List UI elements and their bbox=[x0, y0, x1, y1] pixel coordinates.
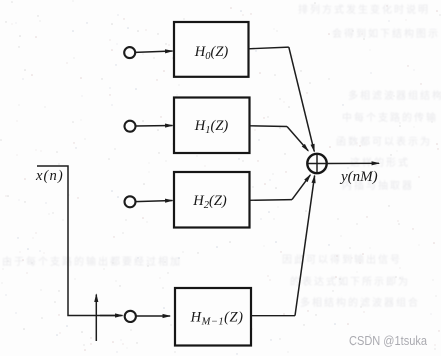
summing junction bbox=[307, 154, 326, 173]
svg-text:中每个支路的传输: 中每个支路的传输 bbox=[342, 111, 438, 124]
svg-text:CSDN @1tsuka: CSDN @1tsuka bbox=[349, 334, 427, 348]
svg-text:由于每个支路的输出都要经过相加: 由于每个支路的输出都要经过相加 bbox=[2, 255, 182, 268]
svg-text:会得到如下结构图示: 会得到如下结构图示 bbox=[332, 27, 440, 40]
sampler circle S2 bbox=[125, 121, 136, 132]
commutator up arrow bbox=[95, 295, 97, 342]
filter block H0 bbox=[174, 22, 249, 77]
svg-text:x(n): x(n) bbox=[35, 168, 64, 184]
sampler circle S1 bbox=[124, 47, 135, 58]
svg-text:多相滤波器组结构: 多相滤波器组结构 bbox=[348, 89, 441, 102]
svg-text:y(nM): y(nM) bbox=[339, 169, 378, 185]
sampler circle S4 bbox=[125, 311, 136, 322]
wire H2 output to summer bbox=[250, 199, 293, 202]
svg-text:排列方式发生变化时说明: 排列方式发生变化时说明 bbox=[298, 3, 430, 16]
svg-text:这样的形式: 这样的形式 bbox=[350, 156, 410, 169]
wire/arrow S1 to H0 bbox=[135, 51, 172, 52]
svg-text:因此可以得到输出信号: 因此可以得到输出信号 bbox=[282, 253, 402, 266]
svg-text:H1(Z): H1(Z) bbox=[194, 118, 229, 136]
wire: input x(n) lead bbox=[37, 166, 121, 316]
wire H0 output to summer bbox=[249, 47, 289, 49]
svg-text:的表达式如下所示即为: 的表达式如下所示即为 bbox=[290, 275, 410, 288]
svg-text:H0(Z): H0(Z) bbox=[194, 44, 229, 62]
output arrow y(nM) bbox=[327, 162, 379, 164]
filter block H2 bbox=[174, 172, 250, 228]
svg-text:函数都可以表示为: 函数都可以表示为 bbox=[336, 135, 432, 148]
filter block HM-1 bbox=[175, 288, 251, 346]
svg-text:多相结构的滤波器组合: 多相结构的滤波器组合 bbox=[300, 296, 420, 309]
arrow into sampler S4 bbox=[100, 315, 123, 317]
filter block H1 bbox=[174, 98, 250, 154]
wire/arrow S4 to HM-1 bbox=[136, 315, 170, 317]
wire/arrow S2 to H1 bbox=[136, 125, 173, 128]
wire H1 output to summer bbox=[250, 125, 288, 128]
wire/arrow S3 to H2 bbox=[136, 201, 173, 202]
wire HM-1 output to summer bbox=[251, 315, 295, 317]
svg-text:H2(Z): H2(Z) bbox=[192, 193, 227, 211]
sampler circle S3 bbox=[125, 196, 136, 207]
